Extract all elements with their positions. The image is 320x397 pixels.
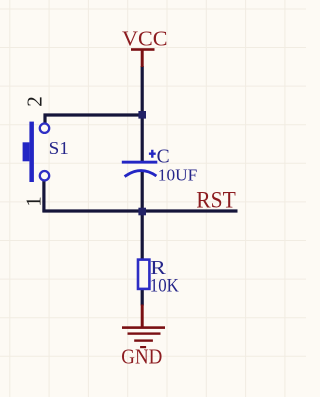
svg-text:2: 2	[23, 96, 47, 107]
svg-text:S1: S1	[49, 138, 69, 158]
svg-text:VCC: VCC	[122, 27, 168, 51]
svg-text:RST: RST	[196, 188, 236, 214]
svg-text:1: 1	[22, 196, 46, 207]
svg-text:C: C	[157, 146, 170, 167]
svg-text:10UF: 10UF	[158, 165, 198, 184]
svg-text:10K: 10K	[150, 275, 179, 296]
svg-text:GND: GND	[121, 345, 162, 369]
